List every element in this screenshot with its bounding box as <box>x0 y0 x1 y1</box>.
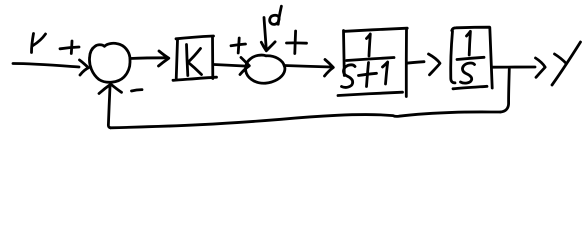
summing junction S1 <box>89 43 130 82</box>
wire S2 to block G1 <box>285 66 332 68</box>
block G1 numerator 1 <box>367 34 371 56</box>
node r (input label) <box>32 34 46 53</box>
block G1 plus of s+1 <box>359 63 377 87</box>
block G1 box 1/(s+1) <box>344 28 408 96</box>
wire block K to summing junction S2 <box>214 65 244 67</box>
feedback arrowhead into S1 bottom <box>99 84 122 93</box>
block G2 numerator 1 <box>467 31 471 55</box>
minus sign (feedback polarity) <box>132 90 143 91</box>
block G1 letter s <box>342 65 356 88</box>
chevron arrowhead of G1 to G2 <box>429 54 441 75</box>
block K box <box>173 36 217 80</box>
arrowhead into S2 <box>240 58 249 75</box>
disturbance wire d down into S2 <box>264 18 266 51</box>
wire input r to summing junction S1 <box>13 64 79 68</box>
plus sign (K path into S2) <box>231 38 246 53</box>
arrowhead disturbance into S2 <box>261 42 275 51</box>
wire S1 to block K <box>130 56 166 60</box>
arrowhead into G1 <box>325 60 334 77</box>
output arrowhead to y <box>536 58 546 77</box>
node d (disturbance label) <box>270 6 282 24</box>
wire G2 output to y <box>493 66 536 69</box>
dash of arrow G1 to G2 <box>407 62 425 64</box>
arrowhead into block K <box>159 51 169 66</box>
arrowhead input into S1 <box>80 60 89 75</box>
block G1 fraction bar <box>347 58 395 61</box>
feedback wire left corner and riser <box>108 87 110 128</box>
block K letter k <box>187 45 202 76</box>
block G2 underline <box>453 86 487 89</box>
plus sign (r input polarity) <box>60 41 79 54</box>
block G2 fraction bar <box>457 57 484 59</box>
feedback wire bottom run <box>111 112 501 128</box>
plus sign (disturbance polarity) <box>287 31 307 54</box>
block G2 letter s <box>461 63 475 83</box>
summing junction S2 <box>246 55 285 83</box>
takeoff wire down from output node <box>501 69 510 112</box>
node y (output label) <box>552 42 581 85</box>
block G1 bottom underline <box>338 92 403 95</box>
block G1 denominator 1 <box>383 62 388 84</box>
block G2 box 1/s <box>451 27 492 88</box>
